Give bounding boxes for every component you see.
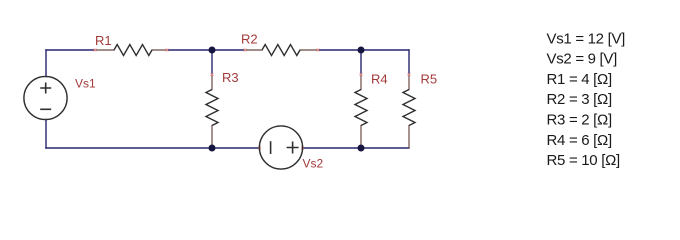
svg-text:R5: R5 [421,72,438,87]
svg-text:R4: R4 [371,72,388,87]
svg-text:R4 = 6 [Ω]: R4 = 6 [Ω] [547,132,612,149]
svg-text:Vs2 = 9 [V]: Vs2 = 9 [V] [547,51,618,68]
svg-text:Vs1 = 12 [V]: Vs1 = 12 [V] [547,30,626,47]
svg-text:R5 = 10 [Ω]: R5 = 10 [Ω] [547,152,621,169]
svg-text:R3 = 2 [Ω]: R3 = 2 [Ω] [547,112,612,129]
svg-text:R1: R1 [95,33,112,48]
svg-text:R3: R3 [222,70,239,85]
svg-text:Vs2: Vs2 [303,157,324,171]
svg-text:R2 = 3 [Ω]: R2 = 3 [Ω] [547,91,612,108]
svg-text:Vs1: Vs1 [75,77,96,91]
svg-text:R2: R2 [241,32,258,47]
svg-text:R1 = 4 [Ω]: R1 = 4 [Ω] [547,71,612,88]
